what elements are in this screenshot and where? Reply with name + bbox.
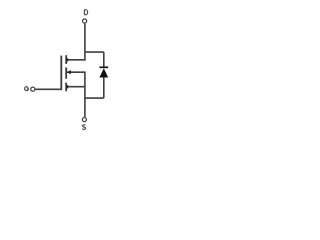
wire: gate lead horizontal from G pin to gate bar: [35, 88, 62, 90]
junction tick: drain-to-channel: [66, 58, 68, 61]
terminal pin circle S: [82, 118, 86, 122]
wire: drain vertical from D pin to drain junction: [84, 24, 86, 61]
MOSFET with body diode schematic: [0, 0, 150, 147]
wire: diode vertical lower (anode side): [103, 77, 105, 98]
transistor Q1 channel bottom segment (source): [65, 83, 67, 92]
node label D: [84, 10, 87, 15]
node label G: [25, 87, 29, 91]
diode D1 cathode bar: [99, 66, 108, 68]
wire: source vertical from body junction to S pin: [84, 72, 86, 118]
wire: body connection horizontal: [67, 71, 85, 73]
node label S: [82, 125, 85, 130]
transistor Q1 body arrow (points toward gate): [67, 70, 71, 74]
wire: source horizontal into MOSFET bottom channel segment: [66, 86, 85, 88]
diode D1 anode triangle (pointing up): [99, 68, 108, 77]
junction tick: source-to-channel: [66, 85, 68, 88]
transistor Q1 gate bar: [60, 56, 62, 90]
wire: diode vertical upper (cathode side): [103, 52, 105, 67]
wire: drain horizontal into MOSFET top channel segment: [66, 59, 85, 61]
wire: diode bottom branch horizontal: [85, 97, 104, 99]
terminal pin circle G: [31, 87, 35, 91]
terminal pin circle D: [83, 19, 87, 23]
wire: diode top branch horizontal: [85, 51, 104, 53]
transistor Q1 channel top segment (drain): [65, 55, 67, 64]
transistor Q1 channel middle segment (body): [65, 67, 67, 78]
